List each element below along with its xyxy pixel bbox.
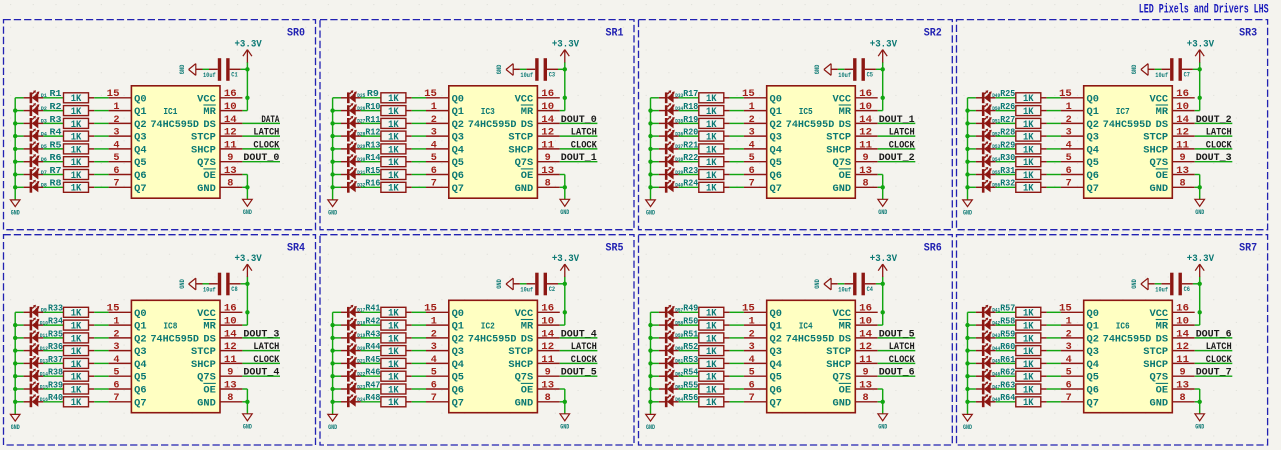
pin 4 (Q4) of IC1 [109, 140, 147, 156]
svg-text:C7: C7 [1184, 71, 1191, 78]
svg-text:R4: R4 [50, 128, 63, 138]
wire: cathode bus to LED D45 [968, 362, 976, 364]
svg-text:C8: C8 [231, 286, 238, 293]
LED D53 [976, 141, 996, 154]
svg-text:GND: GND [814, 64, 821, 74]
svg-text:R23: R23 [683, 166, 698, 176]
resistor R34 (1K) [64, 320, 95, 330]
LED D18 [341, 318, 361, 331]
wire: resistor R38 to IC8 pin 5 [94, 375, 108, 377]
wire: pin to label CLOCK [242, 148, 280, 150]
svg-text:GND: GND [560, 209, 569, 216]
svg-text:LATCH: LATCH [889, 342, 915, 353]
junction: cathode bus row 4 [965, 348, 969, 352]
svg-text:IC6: IC6 [1116, 321, 1130, 332]
svg-text:GND: GND [197, 184, 216, 195]
svg-text:15: 15 [107, 304, 120, 315]
svg-text:R32: R32 [1000, 179, 1015, 189]
junction: cathode bus row 7 [330, 172, 334, 176]
svg-text:4: 4 [431, 355, 437, 366]
svg-text:1K: 1K [1023, 347, 1034, 358]
junction: cathode bus row 8 [965, 185, 969, 189]
resistor R50 (1K) [699, 320, 730, 330]
svg-text:GND: GND [560, 424, 569, 431]
wire: cathode bus to LED D59 [651, 337, 659, 339]
svg-text:1K: 1K [1023, 107, 1034, 118]
resistor R28 (1K) [1016, 131, 1047, 141]
wire: LED D6 to resistor R6 [43, 161, 63, 163]
wire: cathode bus to LED D30 [333, 161, 341, 163]
svg-text:1: 1 [431, 102, 437, 113]
svg-text:12: 12 [224, 342, 237, 353]
wire: cathode bus to LED D14 [15, 375, 23, 377]
wire: LED D10 to resistor R34 [43, 324, 63, 326]
svg-text:16: 16 [224, 89, 237, 100]
LED D31 [341, 167, 361, 180]
resistor R9 (1K) [381, 93, 412, 103]
wire: resistor R60 to IC6 pin 3 [1047, 350, 1061, 352]
svg-text:1K: 1K [388, 94, 399, 105]
wire: LED cathode bus (vertical) [332, 312, 334, 414]
power +3.3V [1187, 39, 1215, 62]
svg-text:GND: GND [197, 398, 216, 409]
wire: LED D18 to resistor R42 [361, 324, 381, 326]
pin 1 (Q1) of IC6 [1061, 317, 1099, 333]
junction: cathode bus row 8 [965, 400, 969, 404]
junction: cathode bus row 6 [648, 160, 652, 164]
svg-text:14: 14 [859, 329, 872, 340]
pin 1 (Q1) of IC3 [426, 102, 464, 118]
op-amp/shift register IC IC5 74HC595D [767, 86, 856, 198]
svg-text:10: 10 [859, 317, 872, 328]
wire: cathode bus to LED D27 [333, 122, 341, 124]
wire: LED D31 to resistor R15 [361, 174, 381, 176]
svg-text:Q3: Q3 [452, 347, 464, 358]
pin 4 (Q4) of IC3 [426, 140, 464, 156]
wire: +3.3V rail to VCC pin 16 and MR pin 10 [1199, 62, 1201, 111]
svg-text:Q5: Q5 [134, 158, 146, 169]
svg-text:GND: GND [878, 424, 887, 431]
svg-text:DOUT_0: DOUT_0 [243, 153, 279, 164]
wire: LED D53 to resistor R29 [996, 148, 1016, 150]
svg-text:1: 1 [431, 317, 437, 328]
junction: cathode bus row 3 [965, 336, 969, 340]
junction: cathode bus row 8 [648, 400, 652, 404]
svg-text:Q0: Q0 [134, 94, 146, 105]
ground GND (under IC3) [560, 199, 570, 216]
wire: LED D24 to resistor R48 [361, 401, 381, 403]
resistor R39 (1K) [64, 384, 95, 394]
svg-text:1K: 1K [1023, 322, 1034, 333]
LED D4 [24, 129, 44, 142]
wire: pin to label DOUT_1 [878, 122, 916, 124]
wire: pin to label DOUT_1 [560, 161, 598, 163]
svg-text:74HC595D: 74HC595D [1103, 334, 1152, 345]
pin 1 (Q1) of IC1 [109, 102, 147, 118]
wire: cathode bus to LED D58 [651, 324, 659, 326]
resistor R25 (1K) [1016, 93, 1047, 103]
LED D46 [976, 369, 996, 382]
wire: capacitor C8 to +3.3V rail [241, 283, 248, 285]
svg-text:1K: 1K [1023, 385, 1034, 396]
svg-text:1: 1 [749, 102, 755, 113]
svg-text:C2: C2 [549, 286, 556, 293]
svg-text:11: 11 [541, 355, 554, 366]
resistor R22 (1K) [699, 157, 730, 167]
svg-text:1K: 1K [71, 171, 82, 182]
wire: LED D62 to resistor R54 [679, 375, 699, 377]
wire: LED cathode bus (vertical) [14, 98, 16, 200]
svg-text:1K: 1K [388, 347, 399, 358]
pin 13 (OE) of IC4 [839, 380, 878, 396]
op-amp/shift register IC IC3 74HC595D [449, 86, 538, 198]
pin 10 (MR) of IC8 [203, 317, 242, 333]
wire: LED D22 to resistor R46 [361, 375, 381, 377]
wire: capacitor C2 to +3.3V rail [558, 283, 565, 285]
svg-text:Q1: Q1 [770, 107, 782, 118]
resistor R7 (1K) [64, 170, 95, 180]
svg-text:1K: 1K [1023, 184, 1034, 195]
wire: resistor R63 to IC6 pin 6 [1047, 388, 1061, 390]
wire: LED D47 to resistor R63 [996, 388, 1016, 390]
wire: resistor R52 to IC4 pin 3 [730, 350, 744, 352]
pin 11 (SHCP) of IC5 [826, 140, 877, 156]
pin 13 (OE) of IC8 [203, 380, 242, 396]
wire: LED D12 to resistor R36 [43, 350, 63, 352]
svg-text:6: 6 [749, 166, 755, 177]
junction: cathode bus row 8 [330, 185, 334, 189]
svg-text:Q0: Q0 [1087, 309, 1099, 320]
wire: pin to label DOUT_6 [1195, 337, 1233, 339]
svg-text:10uf: 10uf [838, 286, 851, 293]
capacitor C7 10uf [1161, 58, 1193, 81]
svg-text:R39: R39 [48, 380, 63, 390]
svg-text:GND: GND [1150, 184, 1169, 195]
wire: LED D60 to resistor R52 [679, 350, 699, 352]
junction: cathode bus row 4 [13, 348, 17, 352]
svg-text:Q1: Q1 [770, 322, 782, 333]
svg-text:6: 6 [749, 380, 755, 391]
svg-text:R27: R27 [1000, 115, 1015, 125]
svg-text:74HC595D: 74HC595D [786, 120, 835, 131]
junction: capacitor to rail [563, 67, 567, 71]
svg-text:STCP: STCP [508, 347, 533, 358]
wire: resistor R2 to IC1 pin 1 [94, 110, 108, 112]
wire: LED D27 to resistor R11 [361, 122, 381, 124]
LED D21 [341, 356, 361, 369]
pin 14 (DS) of IC4 [839, 329, 878, 345]
wire: LED D40 to resistor R24 [679, 186, 699, 188]
svg-text:1K: 1K [706, 385, 717, 396]
hierarchical sheet SR4 outline [4, 235, 316, 445]
svg-text:R57: R57 [1000, 304, 1015, 314]
wire: LED D15 to resistor R39 [43, 388, 63, 390]
resistor R53 (1K) [699, 358, 730, 368]
pin 7 (Q7) of IC6 [1061, 393, 1099, 409]
LED D11 [24, 330, 44, 343]
wire: LED D63 to resistor R55 [679, 388, 699, 390]
svg-text:1K: 1K [1023, 133, 1034, 144]
svg-text:11: 11 [541, 140, 554, 151]
wire: resistor R16 to IC3 pin 7 [412, 186, 426, 188]
pin 7 (Q7) of IC7 [1061, 179, 1099, 195]
pin 13 (OE) of IC5 [839, 166, 878, 182]
resistor R46 (1K) [381, 371, 412, 381]
pin 12 (STCP) of IC1 [191, 128, 242, 144]
svg-text:1K: 1K [706, 360, 717, 371]
LED D20 [341, 343, 361, 356]
wire: cathode bus to LED D32 [333, 186, 341, 188]
wire: resistor R4 to IC1 pin 3 [94, 135, 108, 137]
ground GND (cathode bus) [328, 414, 338, 431]
pin 7 (Q7) of IC1 [109, 179, 147, 195]
pin 12 (STCP) of IC5 [826, 128, 877, 144]
svg-text:1K: 1K [706, 322, 717, 333]
junction: cathode bus row 7 [648, 172, 652, 176]
junction: capacitor to rail [1198, 282, 1202, 286]
svg-text:9: 9 [1180, 153, 1186, 164]
svg-text:7: 7 [1066, 179, 1072, 190]
svg-text:R16: R16 [365, 179, 380, 189]
wire: cathode bus to LED D38 [651, 161, 659, 163]
wire: resistor R56 to IC4 pin 7 [730, 401, 744, 403]
svg-text:R22: R22 [683, 153, 698, 163]
LED D33 [659, 90, 679, 103]
pin 12 (STCP) of IC3 [508, 128, 559, 144]
LED D58 [659, 318, 679, 331]
junction: cathode bus row 6 [965, 160, 969, 164]
svg-text:GND: GND [496, 64, 503, 74]
svg-text:5: 5 [431, 368, 437, 379]
resistor R32 (1K) [1016, 182, 1047, 192]
capacitor C2 10uf [526, 273, 558, 296]
ground GND (cathode bus) [963, 200, 973, 217]
junction: cathode bus row 2 [13, 323, 17, 327]
ground GND (cathode bus) [10, 414, 20, 431]
svg-text:GND: GND [243, 424, 252, 431]
resistor R3 (1K) [64, 118, 95, 128]
pin 13 (OE) of IC1 [203, 166, 242, 182]
wire: LED D9 to resistor R33 [43, 311, 63, 313]
svg-text:5: 5 [113, 368, 119, 379]
wire: LED D36 to resistor R20 [679, 135, 699, 137]
wire: GND to capacitor C4 [831, 283, 838, 285]
svg-text:4: 4 [749, 355, 755, 366]
svg-text:OE: OE [521, 171, 533, 182]
wire: pin to label LATCH [242, 135, 280, 137]
wire: resistor R15 to IC3 pin 6 [412, 174, 426, 176]
svg-text:1K: 1K [1023, 120, 1034, 131]
svg-text:SR3: SR3 [1239, 27, 1257, 39]
svg-text:4: 4 [749, 140, 755, 151]
junction: VCC pin 16 [245, 96, 249, 100]
capacitor C8 10uf [209, 273, 241, 296]
LED D40 [659, 180, 679, 193]
svg-text:C5: C5 [867, 71, 874, 78]
svg-text:3: 3 [1066, 342, 1072, 353]
svg-text:MR: MR [839, 107, 852, 118]
svg-text:7: 7 [1066, 393, 1072, 404]
svg-text:DOUT_4: DOUT_4 [243, 368, 279, 379]
svg-text:CLOCK: CLOCK [571, 355, 598, 366]
wire: pin to label DOUT_6 [878, 375, 916, 377]
wire: LED D25 to resistor R9 [361, 97, 381, 99]
svg-text:Q5: Q5 [452, 373, 464, 384]
resistor R59 (1K) [1016, 333, 1047, 343]
pin 15 (Q0) of IC6 [1059, 304, 1099, 320]
wire: pin to label LATCH [560, 350, 598, 352]
junction: cathode bus row 5 [13, 361, 17, 365]
svg-text:C4: C4 [867, 286, 874, 293]
svg-text:10: 10 [224, 317, 237, 328]
junction: capacitor to rail [245, 67, 249, 71]
svg-text:1K: 1K [388, 334, 399, 345]
wire: LED D48 to resistor R64 [996, 401, 1016, 403]
wire: LED D28 to resistor R12 [361, 135, 381, 137]
svg-text:1K: 1K [706, 373, 717, 384]
pin 9 (Q7S) of IC7 [1150, 153, 1195, 169]
svg-text:1: 1 [113, 317, 119, 328]
wire: resistor R10 to IC3 pin 1 [412, 110, 426, 112]
svg-text:SR1: SR1 [606, 27, 624, 39]
pin 9 (Q7S) of IC8 [197, 368, 242, 384]
svg-text:3: 3 [749, 128, 755, 139]
pin 8 (GND) of IC1 [197, 179, 242, 195]
svg-text:R6: R6 [50, 153, 62, 163]
svg-text:14: 14 [1176, 115, 1189, 126]
svg-text:3: 3 [113, 128, 119, 139]
wire: cathode bus to LED D50 [968, 110, 976, 112]
pin 3 (Q3) of IC6 [1061, 342, 1099, 358]
svg-text:SR0: SR0 [287, 27, 305, 39]
svg-text:SR5: SR5 [606, 242, 624, 254]
svg-text:DATA: DATA [261, 115, 280, 126]
svg-text:Q7S: Q7S [515, 158, 534, 169]
wire: resistor R7 to IC1 pin 6 [94, 174, 108, 176]
svg-text:Q7: Q7 [134, 398, 146, 409]
resistor R27 (1K) [1016, 118, 1047, 128]
svg-text:8: 8 [227, 393, 233, 404]
junction: VCC pin 16 [881, 310, 885, 314]
wire: resistor R36 to IC8 pin 3 [94, 350, 108, 352]
junction: cathode bus row 5 [648, 361, 652, 365]
svg-text:1K: 1K [71, 145, 82, 156]
svg-text:74HC595D: 74HC595D [468, 334, 517, 345]
resistor R62 (1K) [1016, 371, 1047, 381]
pin 12 (STCP) of IC7 [1143, 128, 1194, 144]
wire: GND to capacitor C1 [196, 68, 203, 70]
power +3.3V [870, 39, 898, 62]
hierarchical sheet SR6 outline [639, 235, 953, 445]
wire: cathode bus to LED D10 [15, 324, 23, 326]
resistor R60 (1K) [1016, 346, 1047, 356]
svg-text:11: 11 [1176, 140, 1189, 151]
resistor R15 (1K) [381, 170, 412, 180]
wire: LED D17 to resistor R41 [361, 311, 381, 313]
wire: pin to label DOUT_0 [242, 161, 280, 163]
svg-text:GND: GND [833, 398, 852, 409]
junction: cathode bus row 3 [13, 336, 17, 340]
wire: resistor R13 to IC3 pin 4 [412, 148, 426, 150]
svg-text:11: 11 [1176, 355, 1189, 366]
svg-text:16: 16 [224, 304, 237, 315]
LED D42 [976, 318, 996, 331]
junction: cathode bus row 4 [330, 134, 334, 138]
resistor R11 (1K) [381, 118, 412, 128]
svg-text:IC5: IC5 [799, 106, 813, 117]
svg-text:1K: 1K [388, 133, 399, 144]
resistor R42 (1K) [381, 320, 412, 330]
wire: OE pin 13 and GND pin 8 to ground [1199, 175, 1201, 200]
svg-text:SHCP: SHCP [508, 360, 533, 371]
wire: LED cathode bus (vertical) [650, 98, 652, 200]
svg-text:C1: C1 [231, 71, 238, 78]
svg-text:R56: R56 [683, 393, 698, 403]
svg-text:7: 7 [749, 393, 755, 404]
resistor R64 (1K) [1016, 397, 1047, 407]
svg-text:R28: R28 [1000, 128, 1015, 138]
wire: LED D57 to resistor R49 [679, 311, 699, 313]
junction: cathode bus row 5 [965, 147, 969, 151]
junction: VCC pin 16 [563, 96, 567, 100]
wire: LED cathode bus (vertical) [332, 98, 334, 200]
LED D13 [24, 356, 44, 369]
LED D23 [341, 381, 361, 394]
svg-text:1K: 1K [1023, 398, 1034, 409]
wire: cathode bus to LED D22 [333, 375, 341, 377]
svg-text:GND: GND [328, 424, 337, 431]
pin 4 (Q4) of IC7 [1061, 140, 1099, 156]
svg-text:11: 11 [859, 140, 872, 151]
wire: resistor R58 to IC6 pin 1 [1047, 324, 1061, 326]
svg-text:R62: R62 [1000, 368, 1015, 378]
wire: resistor R49 to IC4 pin 15 [730, 311, 744, 313]
svg-text:DOUT_1: DOUT_1 [561, 153, 597, 164]
LED D30 [341, 154, 361, 167]
svg-text:10uf: 10uf [203, 286, 216, 293]
svg-text:Q4: Q4 [452, 145, 464, 156]
resistor R24 (1K) [699, 182, 730, 192]
resistor R55 (1K) [699, 384, 730, 394]
capacitor C1 10uf [209, 58, 241, 81]
wire: OE pin 13 and GND pin 8 to ground [882, 389, 884, 414]
pin 12 (STCP) of IC4 [826, 342, 877, 358]
svg-text:Q5: Q5 [452, 158, 464, 169]
svg-text:MR: MR [839, 322, 852, 333]
svg-text:R53: R53 [683, 355, 698, 365]
LED D48 [976, 394, 996, 407]
pin 16 (VCC) of IC6 [1150, 304, 1195, 320]
svg-text:1K: 1K [1023, 360, 1034, 371]
svg-text:1: 1 [113, 102, 119, 113]
svg-text:Q1: Q1 [452, 322, 464, 333]
wire: cathode bus to LED D26 [333, 110, 341, 112]
wire: cathode bus to LED D7 [15, 174, 23, 176]
pin 5 (Q5) of IC6 [1061, 368, 1099, 384]
op-amp/shift register IC IC1 74HC595D [131, 86, 220, 198]
LED D32 [341, 180, 361, 193]
wire: resistor R3 to IC1 pin 2 [94, 122, 108, 124]
svg-text:16: 16 [859, 304, 872, 315]
wire: cathode bus to LED D1 [15, 97, 23, 99]
svg-text:R8: R8 [50, 179, 62, 189]
svg-text:12: 12 [1176, 128, 1189, 139]
op-amp/shift register IC IC8 74HC595D [131, 300, 220, 412]
svg-text:13: 13 [224, 166, 237, 177]
wire: cathode bus to LED D53 [968, 148, 976, 150]
svg-text:1K: 1K [388, 107, 399, 118]
ground GND (decoupling) [496, 278, 513, 290]
